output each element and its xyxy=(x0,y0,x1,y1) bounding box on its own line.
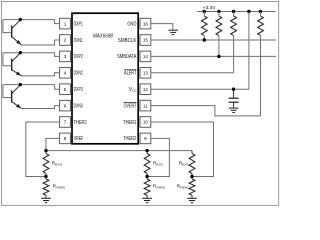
capacitor C1 (VCC bypass) xyxy=(233,89,235,98)
node rail junction R1 xyxy=(203,10,206,13)
svg-text:15: 15 xyxy=(143,38,149,43)
transistor Q2 (remote sensor, diode-connected) xyxy=(11,59,13,71)
svg-text:EX3: EX3 xyxy=(55,163,62,167)
svg-text:THERM2: THERM2 xyxy=(156,185,165,189)
node collector-base junction Q1 xyxy=(19,18,22,21)
emitter arrow Q2 xyxy=(16,71,21,75)
node VREF-REX2 junction xyxy=(145,149,148,152)
svg-text:2: 2 xyxy=(64,38,67,43)
pin 5 box (DXP3) xyxy=(60,84,71,95)
svg-text:DXN3: DXN3 xyxy=(74,103,83,109)
svg-text:VREF: VREF xyxy=(74,136,84,142)
svg-text:1: 1 xyxy=(64,21,67,26)
wire base-collector tie Q2 xyxy=(3,53,11,66)
pin 2 box (DXN1) xyxy=(60,35,71,46)
svg-text:10: 10 xyxy=(143,120,149,125)
svg-text:THERM3: THERM3 xyxy=(56,185,65,189)
pin 15 box (SMBCLK) xyxy=(140,35,151,46)
resistor REX1 xyxy=(191,151,193,154)
svg-text:CC: CC xyxy=(132,89,137,93)
emitter arrow Q1 xyxy=(16,40,21,44)
wire DXP top wire Q3 xyxy=(3,84,55,86)
pull-up resistor R1 (SMBCLK) xyxy=(203,12,205,17)
+3.3V power rail xyxy=(197,11,275,13)
op IC U1 MAX6698 body xyxy=(72,13,138,144)
svg-text:THER2: THER2 xyxy=(123,136,137,142)
wire OVERT net xyxy=(151,106,261,116)
node SMBCLK pull-up junction xyxy=(203,38,206,41)
wire base-collector tie Q1 xyxy=(3,20,11,33)
pin 4 box (DXN2) xyxy=(60,68,71,79)
svg-text:DXP1: DXP1 xyxy=(74,21,83,27)
node SMBDATA pull-up junction xyxy=(217,55,220,58)
thermistor RTHERM3 xyxy=(45,177,47,180)
svg-text:5: 5 xyxy=(64,87,67,92)
svg-text:16: 16 xyxy=(143,21,149,26)
svg-text:OVERT: OVERT xyxy=(124,103,137,109)
wire DXP top wire Q1 xyxy=(3,19,55,21)
svg-text:7: 7 xyxy=(64,120,67,125)
svg-text:EX2: EX2 xyxy=(156,163,163,167)
svg-text:THER3: THER3 xyxy=(74,120,87,126)
node rail junction VCCDROP xyxy=(247,10,250,13)
ground symbol below thermistor RTHERM1 xyxy=(187,197,197,199)
node rail junction R2 xyxy=(217,10,220,13)
thermistor RTHERM2 xyxy=(146,177,148,180)
pin 12 box (VCC) xyxy=(140,84,151,95)
pin 1 box (DXP1) xyxy=(60,18,71,29)
svg-text:DXP2: DXP2 xyxy=(74,54,83,60)
wire SMBCLK net xyxy=(151,39,276,41)
wire ALERT net xyxy=(151,72,234,74)
svg-text:13: 13 xyxy=(143,71,149,76)
svg-text:DXN2: DXN2 xyxy=(74,71,83,77)
svg-text:DXP3: DXP3 xyxy=(74,87,83,93)
wire DXN emitter wire Q2 xyxy=(22,73,60,76)
thermistor RTHERM1 xyxy=(191,177,193,180)
pin 6 box (DXN3) xyxy=(60,100,71,111)
node thermistor junction x=46 xyxy=(44,175,47,178)
pin 13 box (ALERT) xyxy=(140,68,151,79)
wire DXP top wire Q2 xyxy=(3,52,55,54)
ground symbol at C1 xyxy=(229,107,239,109)
wire base-collector tie Q3 xyxy=(3,85,11,98)
wire THER2 net xyxy=(147,138,169,176)
resistor REX2 xyxy=(146,151,148,154)
node collector-base junction Q3 xyxy=(19,83,22,86)
svg-text:THERM1: THERM1 xyxy=(180,185,189,189)
svg-text:ALERT: ALERT xyxy=(124,71,136,77)
transistor Q1 (remote sensor, diode-connected) xyxy=(11,25,13,37)
wire VCC drop from rail xyxy=(248,12,250,90)
wire DXN emitter wire Q3 xyxy=(22,106,60,109)
svg-text:SMBDATA: SMBDATA xyxy=(117,54,137,60)
svg-text:MAX6698: MAX6698 xyxy=(93,34,113,40)
schematic frame border xyxy=(2,2,279,206)
pull-up resistor R4 (OVERT) xyxy=(260,12,262,17)
transistor Q3 (remote sensor, diode-connected) xyxy=(11,90,13,102)
pin 9 box (THER2) xyxy=(140,133,151,144)
svg-text:14: 14 xyxy=(143,54,149,59)
node thermistor junction x=192 xyxy=(190,175,193,178)
ground symbol below thermistor RTHERM2 xyxy=(142,197,152,199)
svg-text:9: 9 xyxy=(144,136,147,141)
wire VCC net xyxy=(151,88,249,90)
ground symbol below thermistor RTHERM3 xyxy=(41,197,51,199)
node rail junction R5 xyxy=(259,10,262,13)
node thermistor junction x=147.1 xyxy=(145,175,148,178)
wire SMBDATA net xyxy=(151,55,276,57)
svg-text:EX1: EX1 xyxy=(182,163,189,167)
pin 16 box (GND) xyxy=(140,18,151,29)
node rail junction R3 xyxy=(232,10,235,13)
resistor REX3 xyxy=(45,151,47,154)
node VCC bypass junction xyxy=(232,88,235,91)
ground symbol at GND pin xyxy=(168,29,178,31)
pin 8 box (VREF) xyxy=(60,133,71,144)
wire VREF net xyxy=(46,138,192,150)
svg-text:DXN1: DXN1 xyxy=(74,38,83,44)
svg-text:4: 4 xyxy=(64,71,67,76)
wire THER1 net xyxy=(151,122,214,177)
pin 11 box (OVERT) xyxy=(140,100,151,111)
svg-text:11: 11 xyxy=(143,103,148,108)
wire GND pin16 xyxy=(151,24,173,30)
pin 7 box (THER3) xyxy=(60,117,71,128)
node VREF-REX3 junction xyxy=(44,149,47,152)
pin 10 box (THER1) xyxy=(140,117,151,128)
svg-text:8: 8 xyxy=(64,136,67,141)
pin 3 box (DXP2) xyxy=(60,51,71,62)
node collector-base junction Q2 xyxy=(19,51,22,54)
emitter arrow Q3 xyxy=(16,104,21,108)
svg-text:12: 12 xyxy=(143,87,149,92)
svg-text:3: 3 xyxy=(64,54,67,59)
svg-text:SMBCLK: SMBCLK xyxy=(118,38,137,44)
pull-up resistor R3 (ALERT) xyxy=(233,12,235,17)
svg-text:THER1: THER1 xyxy=(123,120,136,126)
svg-text:6: 6 xyxy=(64,103,67,108)
pin 14 box (SMBDATA) xyxy=(140,51,151,62)
pull-up resistor R2 (SMBDATA) xyxy=(218,12,220,17)
svg-text:GND: GND xyxy=(127,21,136,27)
wire DXN emitter wire Q1 xyxy=(22,40,60,45)
wire THER3 net xyxy=(26,122,60,177)
